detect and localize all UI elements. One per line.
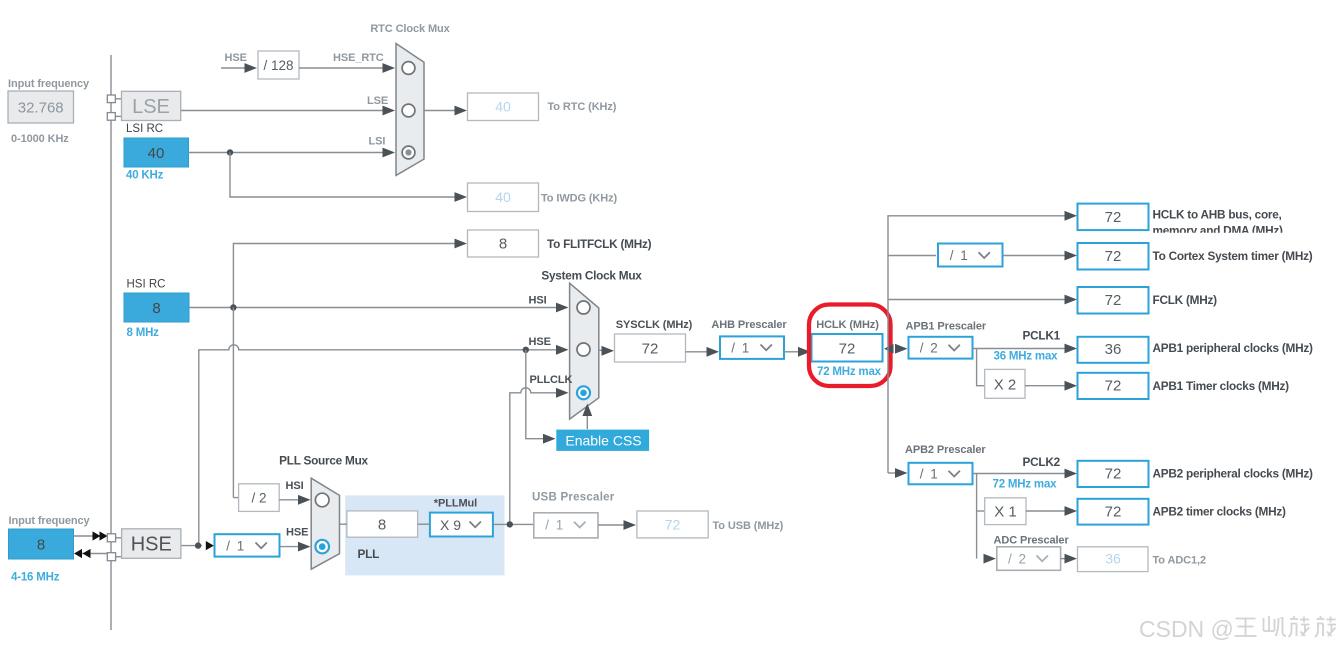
svg-text:APB1 Timer clocks (MHz): APB1 Timer clocks (MHz): [1153, 379, 1290, 393]
svg-text:X 9: X 9: [440, 517, 461, 533]
svg-text:To FLITFCLK (MHz): To FLITFCLK (MHz): [547, 237, 652, 251]
svg-text:PCLK2: PCLK2: [1023, 455, 1061, 469]
svg-text:/ 1: / 1: [920, 467, 940, 482]
svg-text:72: 72: [1105, 378, 1122, 395]
svg-text:72 MHz max: 72 MHz max: [817, 366, 882, 378]
svg-text:PCLK1: PCLK1: [1023, 329, 1061, 343]
svg-text:To RTC (KHz): To RTC (KHz): [548, 101, 617, 113]
svg-text:HSE: HSE: [529, 336, 551, 348]
svg-text:FCLK (MHz): FCLK (MHz): [1153, 293, 1218, 307]
svg-text:PLLCLK: PLLCLK: [530, 374, 573, 386]
svg-text:/ 2: / 2: [1008, 552, 1028, 567]
svg-text:Input frequency: Input frequency: [8, 78, 90, 90]
svg-text:To ADC1,2: To ADC1,2: [1153, 555, 1207, 567]
svg-text:/ 1: / 1: [731, 341, 751, 356]
svg-text:RTC Clock Mux: RTC Clock Mux: [370, 23, 450, 35]
svg-text:HCLK to AHB bus, core,: HCLK to AHB bus, core,: [1153, 208, 1282, 222]
svg-text:HCLK (MHz): HCLK (MHz): [816, 319, 879, 331]
svg-text:40: 40: [148, 145, 165, 162]
svg-text:72: 72: [1105, 504, 1122, 521]
svg-text:memory and DMA (MHz): memory and DMA (MHz): [1153, 224, 1284, 238]
svg-text:4-16 MHz: 4-16 MHz: [11, 572, 60, 584]
svg-text:APB2 peripheral clocks (MHz): APB2 peripheral clocks (MHz): [1153, 467, 1313, 481]
svg-text:/ 2: / 2: [251, 491, 266, 506]
svg-text:APB2 Prescaler: APB2 Prescaler: [905, 444, 986, 456]
svg-text:72: 72: [1105, 466, 1122, 483]
svg-text:HSI RC: HSI RC: [127, 279, 166, 291]
svg-text:40: 40: [495, 99, 511, 115]
svg-text:To IWDG (KHz): To IWDG (KHz): [541, 193, 618, 205]
svg-text:8: 8: [378, 517, 386, 534]
svg-text:/ 1: / 1: [950, 248, 970, 263]
svg-text:HSI: HSI: [529, 295, 547, 307]
svg-text:72: 72: [1105, 248, 1122, 265]
svg-text:AHB Prescaler: AHB Prescaler: [711, 319, 787, 331]
svg-text:HSE: HSE: [225, 52, 247, 64]
svg-text:32.768: 32.768: [18, 100, 64, 117]
svg-text:X 1: X 1: [994, 504, 1017, 521]
svg-text:LSI: LSI: [369, 136, 386, 148]
svg-text:SYSCLK (MHz): SYSCLK (MHz): [616, 319, 693, 331]
svg-text:72: 72: [839, 341, 856, 358]
svg-text:/ 128: / 128: [263, 58, 293, 73]
svg-text:APB1 peripheral clocks (MHz): APB1 peripheral clocks (MHz): [1153, 341, 1313, 355]
svg-text:LSI RC: LSI RC: [126, 123, 163, 135]
svg-text:Enable CSS: Enable CSS: [565, 432, 641, 448]
svg-text:8: 8: [37, 537, 45, 554]
svg-text:40: 40: [495, 189, 511, 205]
svg-text:APB2 timer clocks (MHz): APB2 timer clocks (MHz): [1153, 505, 1287, 519]
svg-text:*PLLMul: *PLLMul: [434, 498, 477, 510]
svg-text:HSE_RTC: HSE_RTC: [333, 52, 384, 64]
svg-text:/ 2: / 2: [920, 341, 940, 356]
svg-text:HSI: HSI: [286, 480, 304, 492]
svg-text:8 MHz: 8 MHz: [127, 327, 160, 339]
svg-text:36: 36: [1105, 551, 1121, 567]
svg-text:/ 1: / 1: [545, 518, 565, 533]
svg-text:System Clock Mux: System Clock Mux: [541, 269, 642, 283]
svg-text:HSE: HSE: [286, 527, 308, 539]
svg-text:72 MHz max: 72 MHz max: [993, 479, 1058, 491]
svg-text:8: 8: [152, 300, 160, 317]
svg-text:72: 72: [1105, 209, 1122, 226]
svg-text:8: 8: [499, 236, 507, 253]
svg-text:LSE: LSE: [367, 95, 388, 107]
svg-text:Input frequency: Input frequency: [9, 515, 91, 527]
svg-text:ADC Prescaler: ADC Prescaler: [994, 535, 1070, 547]
svg-text:CSDN @: CSDN @: [1139, 616, 1234, 642]
svg-text:40 KHz: 40 KHz: [126, 170, 164, 182]
svg-text:0-1000 KHz: 0-1000 KHz: [11, 133, 69, 145]
svg-text:72: 72: [1105, 292, 1122, 309]
svg-text:36 MHz max: 36 MHz max: [994, 351, 1059, 363]
svg-text:HSE: HSE: [131, 534, 172, 556]
svg-text:APB1 Prescaler: APB1 Prescaler: [906, 321, 987, 333]
svg-text:/ 1: / 1: [226, 539, 246, 554]
svg-text:X 2: X 2: [994, 377, 1017, 394]
svg-text:USB Prescaler: USB Prescaler: [532, 492, 615, 504]
svg-text:PLL: PLL: [358, 547, 380, 561]
svg-text:To USB (MHz): To USB (MHz): [713, 520, 784, 532]
svg-text:To Cortex System timer (MHz): To Cortex System timer (MHz): [1153, 249, 1313, 263]
svg-text:LSE: LSE: [132, 96, 170, 118]
svg-text:72: 72: [642, 341, 659, 358]
svg-text:72: 72: [665, 517, 681, 533]
svg-text:PLL Source Mux: PLL Source Mux: [279, 454, 368, 468]
svg-text:36: 36: [1105, 341, 1122, 358]
